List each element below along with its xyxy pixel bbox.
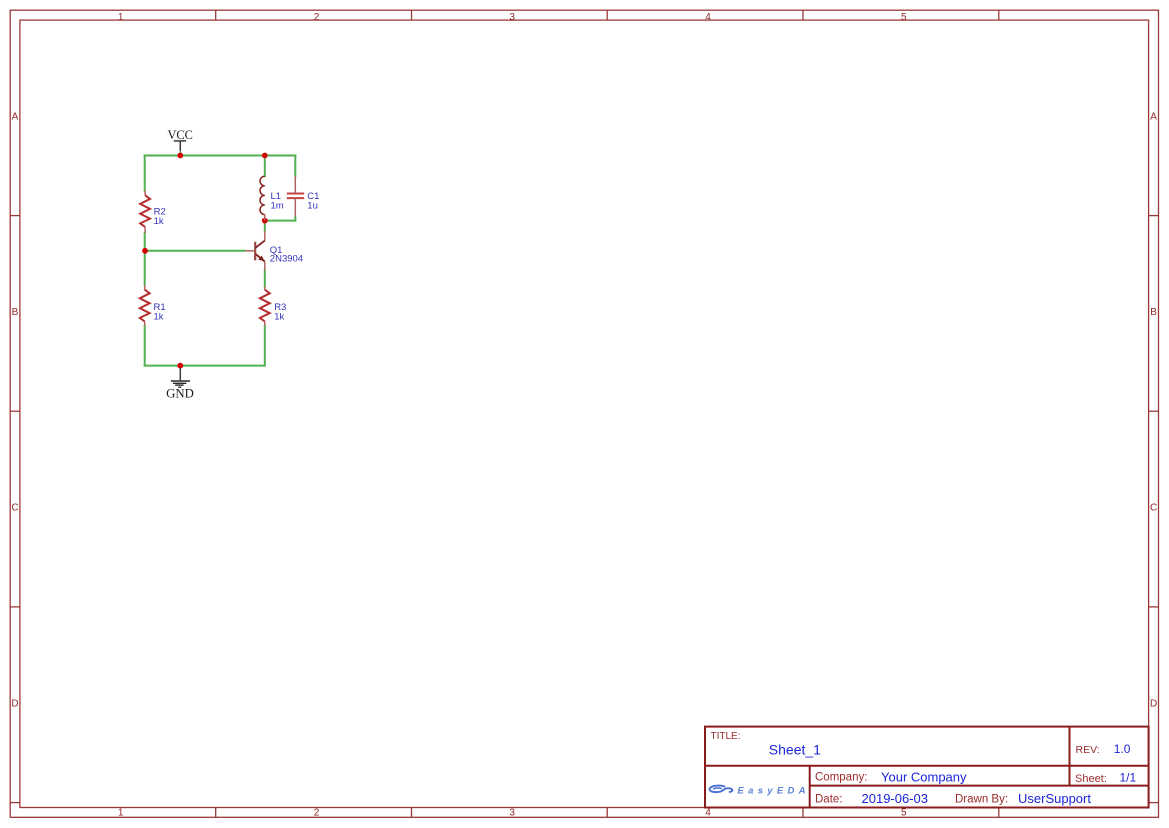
wire collector [264,221,266,232]
svg-text:4: 4 [705,807,711,818]
svg-text:2: 2 [314,807,320,818]
wire right drop to C1 top [294,156,296,177]
svg-text:1k: 1k [274,311,284,322]
wire R3 bottom [264,326,266,366]
transistor Q1 [245,231,303,270]
resistor R3 [260,287,286,326]
svg-text:B: B [1150,307,1157,318]
resistor R2 [140,191,166,233]
svg-text:1: 1 [118,12,124,23]
svg-text:Date:: Date: [815,793,843,805]
wire VCC stub [179,151,181,155]
wire L1 top [264,156,266,177]
wire left upper [144,156,146,191]
wire base [145,250,245,252]
svg-text:Company:: Company: [815,772,867,784]
node VCC junction [177,153,183,159]
svg-text:1: 1 [118,807,124,818]
node tank bottom junction [262,218,268,224]
power VCC [167,128,192,151]
wire GND stub [179,366,181,369]
svg-text:1m: 1m [271,201,284,212]
svg-text:5: 5 [901,12,907,23]
svg-text:A: A [1150,111,1157,122]
svg-text:A: A [12,111,19,122]
wire left lower [144,326,146,366]
capacitor C1 [287,176,320,216]
wire emitter to R3 [264,270,266,286]
wire top rail [145,155,296,157]
svg-text:TITLE:: TITLE: [711,731,741,742]
node base junction [142,248,148,254]
svg-text:VCC: VCC [167,128,192,142]
svg-text:2: 2 [314,12,320,23]
svg-text:3: 3 [509,807,515,818]
svg-text:1u: 1u [307,201,318,212]
svg-text:5: 5 [901,807,907,818]
svg-text:Your Company: Your Company [881,769,967,784]
node GND junction [177,363,183,369]
svg-text:EasyEDA: EasyEDA [738,785,810,796]
svg-text:3: 3 [509,12,515,23]
svg-text:C: C [11,503,18,514]
title block [705,727,1149,808]
svg-text:C: C [1150,503,1157,514]
svg-text:1k: 1k [154,216,164,227]
wire C1 bottom stub [294,216,296,220]
EasyEDA logo [709,785,809,796]
inductor L1 [260,176,284,220]
svg-text:REV:: REV: [1076,744,1100,756]
svg-text:2N3904: 2N3904 [270,254,303,265]
wire left middle [144,233,146,285]
svg-text:1.0: 1.0 [1114,742,1131,756]
ground GND [166,368,194,401]
svg-text:D: D [11,698,18,709]
svg-text:4: 4 [705,12,711,23]
svg-text:Sheet:: Sheet: [1075,773,1107,785]
svg-text:B: B [12,307,19,318]
node tank top junction [262,153,268,159]
svg-text:2019-06-03: 2019-06-03 [862,791,929,806]
svg-text:Sheet_1: Sheet_1 [769,742,821,758]
svg-text:1k: 1k [154,311,164,322]
svg-text:Drawn By:: Drawn By: [955,793,1008,805]
svg-text:GND: GND [166,387,194,401]
wire bottom rail [145,365,265,367]
resistor R1 [140,285,166,326]
svg-text:D: D [1150,698,1157,709]
wire tank bottom [265,220,296,222]
svg-text:1/1: 1/1 [1120,771,1137,785]
svg-text:UserSupport: UserSupport [1018,791,1091,806]
